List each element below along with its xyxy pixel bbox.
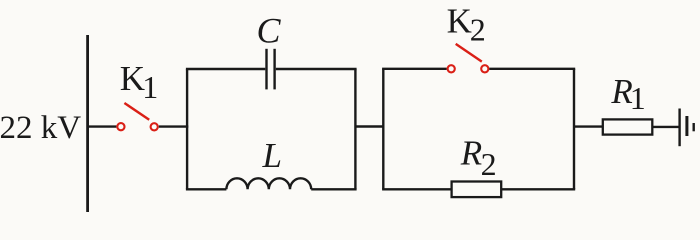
svg-text:1: 1 [630,80,646,116]
wire: LC block bottom side, right segment [311,188,356,190]
inductor L coil [226,178,311,189]
wire: LC block top side, right segment [276,68,357,70]
switch K2 blade [456,44,482,62]
wire: LC block left vertical [186,69,188,189]
resistor R1 body [603,119,653,134]
wire: R2 to block right side [501,188,575,190]
switch K1 blade [124,103,149,120]
resistor R2 body [452,182,502,198]
svg-text:L: L [262,136,282,175]
svg-text:C: C [257,11,282,51]
wire: K2/R2 block left vertical [382,69,384,190]
wire: bus to switch K1 [88,125,117,127]
svg-text:R: R [460,134,482,173]
switch K1 contact circles [117,123,124,130]
wire: K1 to LC block [159,125,189,127]
switch K2 contact circles [448,65,455,72]
wire: LC block right vertical [354,69,356,189]
svg-text:K: K [447,1,472,40]
wire: LC block bottom side, left segment [186,188,227,190]
svg-text:22 kV: 22 kV [0,110,81,146]
wire: K2/R2 block to resistor R1 [574,125,603,127]
svg-text:1: 1 [142,69,158,105]
svg-text:2: 2 [481,146,497,182]
ground symbol: long bar [678,109,680,147]
wire: K2/R2 block right vertical [573,69,575,190]
wire: K2/R2 block top side, left segment [382,68,447,70]
wire: LC block to K2/R2 block [355,125,383,127]
wire: LC block top side, left segment [186,68,265,70]
ground symbol: short bar [693,123,695,131]
wire: R1 to ground [652,126,679,128]
svg-text:2: 2 [470,12,486,48]
capacitor C plates [265,49,267,90]
wire: K2/R2 block top side, right segment [489,68,575,70]
ground symbol: middle bar [685,116,688,136]
bus bar (22 kV supply line) [86,35,89,212]
wire: K2/R2 block bottom side, left segment [382,188,452,190]
